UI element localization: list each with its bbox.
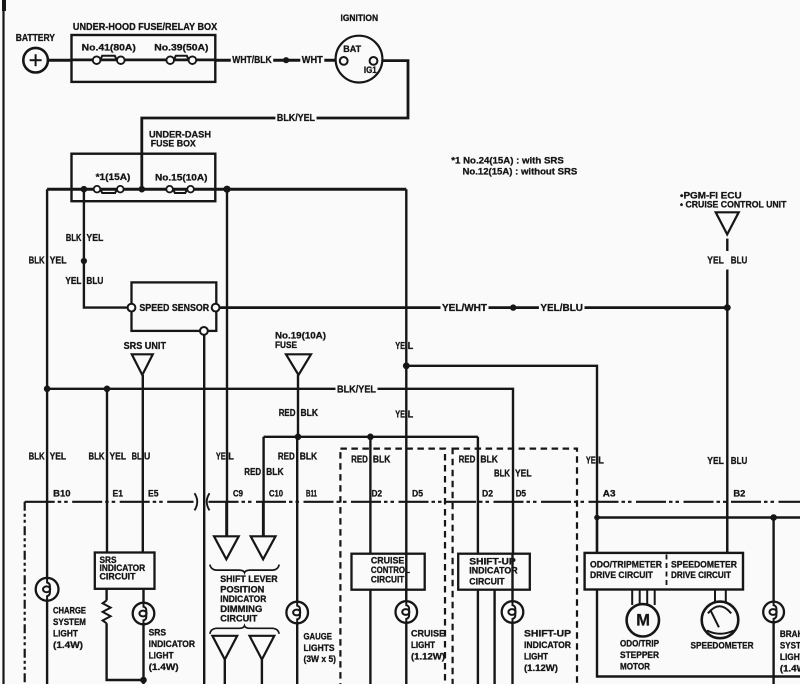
junction dot ignition feed [139, 186, 146, 193]
svg-text:(1.4W): (1.4W) [53, 640, 83, 650]
dashed box shift-up section [453, 449, 577, 684]
speed sensor terminals [128, 304, 136, 312]
svg-text:SRS: SRS [149, 627, 167, 637]
wire lower triangle leg right [261, 660, 263, 684]
wire ignition IG1 down BLK/YEL [142, 61, 408, 190]
svg-text:WHT: WHT [302, 55, 323, 66]
svg-text:U: U [144, 452, 150, 463]
svg-text:B11: B11 [306, 488, 317, 498]
svg-text:(3W x 5): (3W x 5) [304, 654, 337, 664]
svg-text:DRIVE CIRCUIT: DRIVE CIRCUIT [671, 569, 731, 580]
splice WHT/BLK to WHT [283, 57, 289, 63]
svg-text:SYSTEM: SYSTEM [53, 617, 86, 627]
svg-text:• CRUISE CONTROL UNIT: • CRUISE CONTROL UNIT [680, 199, 787, 210]
junction dot A3 cluster corner [594, 515, 600, 521]
splice BLK/YEL to YEL/BLU [81, 258, 87, 264]
svg-text:(1.4W): (1.4W) [780, 664, 800, 674]
svg-text:No.39(50A): No.39(50A) [154, 42, 208, 53]
junction dot SRS ground bus [140, 677, 147, 684]
svg-text:A3: A3 [603, 488, 616, 498]
odo/speedometer drive circuit box [585, 553, 743, 590]
wire under-hood box to ignition [215, 59, 340, 62]
svg-text:DIMMING: DIMMING [220, 604, 262, 614]
svg-text:BLK: BLK [89, 452, 106, 463]
junction dot YEL/BLU at B2 line [724, 304, 731, 311]
ignition switch [336, 36, 383, 83]
svg-text:M: M [636, 611, 650, 629]
svg-text:INDICATOR: INDICATOR [524, 640, 571, 650]
odo/trip stepper motor [631, 590, 633, 606]
svg-text:*1(15A): *1(15A) [96, 171, 131, 182]
wire YEL main vertical from fuse box [405, 189, 407, 601]
junction dot fuse row right [223, 186, 230, 193]
svg-text:SHIFT-UP: SHIFT-UP [524, 628, 571, 638]
svg-text:SPEEDOMETER: SPEEDOMETER [691, 641, 754, 651]
wire C10 vertical [262, 437, 264, 537]
svg-text:BATTERY: BATTERY [16, 33, 56, 44]
fuse No.41 80A [100, 56, 117, 60]
svg-text:RED: RED [459, 455, 476, 466]
svg-text:C10: C10 [269, 488, 283, 498]
dashed box cruise section [340, 449, 445, 684]
svg-text:DRIVE CIRCUIT: DRIVE CIRCUIT [590, 569, 653, 580]
SRS indicator light bulb [133, 603, 155, 625]
cruise light bulb [396, 601, 418, 623]
ECU cruise triangle [716, 212, 739, 234]
svg-text:YE: YE [395, 409, 405, 420]
overbrace shift lever [210, 626, 279, 634]
svg-text:GAUGE: GAUGE [304, 631, 333, 641]
shift-up indicator circuit box [458, 554, 530, 590]
svg-text:D5: D5 [412, 488, 423, 498]
svg-text:YE: YE [586, 456, 596, 467]
svg-text:No.15(10A): No.15(10A) [155, 171, 208, 182]
svg-text:YEL: YEL [50, 256, 67, 267]
junction dot YEL branch [403, 362, 410, 369]
label BLK/YEL bus [336, 384, 378, 394]
svg-text:E5: E5 [148, 488, 159, 498]
svg-text:(1.12W): (1.12W) [524, 663, 558, 673]
svg-text:WHT/BLK: WHT/BLK [232, 55, 272, 66]
svg-text:L: L [598, 456, 604, 467]
svg-text:BLK: BLK [494, 468, 511, 479]
svg-text:ODO/TRIP: ODO/TRIP [620, 639, 659, 649]
svg-text:SPEED SENSOR: SPEED SENSOR [139, 303, 209, 314]
wire E1 vertical [106, 389, 108, 553]
harness break marks [195, 493, 198, 510]
battery [23, 48, 48, 73]
svg-text:BAT: BAT [343, 44, 361, 54]
instrument cluster connector line [25, 501, 194, 503]
svg-text:STEPPER: STEPPER [620, 650, 659, 660]
wire shift-up below box mid [493, 590, 495, 684]
wire A3 into drive circuit [596, 518, 598, 553]
SRS unit triangle [132, 354, 153, 375]
wire speed sensor bottom YEL down [203, 331, 205, 684]
fuse *1 15A [100, 189, 117, 193]
charge system light bulb [36, 578, 59, 601]
svg-text:LIGHT: LIGHT [411, 640, 435, 650]
SRS resistor [103, 601, 111, 624]
svg-text:RED: RED [244, 467, 261, 478]
svg-text:BLK: BLK [301, 408, 319, 419]
label YEL/BLU splice [539, 302, 585, 312]
svg-text:BLU: BLU [731, 456, 748, 467]
svg-text:CRUISE: CRUISE [371, 556, 405, 566]
junction dot BLK/YEL bus B10 [44, 386, 51, 393]
wire battery to under-hood box [48, 59, 72, 62]
wire brake light branch [772, 518, 774, 684]
drive circuit box divider [666, 555, 668, 589]
wire BLK/YEL B10 branch vertical [46, 189, 48, 684]
svg-text:C9: C9 [233, 488, 243, 498]
wire through under-hood fuses [72, 59, 216, 62]
wire SRS unit BLU to E5 [142, 375, 144, 553]
junction dot fuse row left [81, 186, 88, 193]
svg-text:INDICATOR: INDICATOR [149, 639, 196, 649]
label WHT [300, 55, 324, 65]
svg-text:*1 No.24(15A) : with SRS: *1 No.24(15A) : with SRS [451, 156, 564, 166]
fuse No.39 50A [174, 56, 189, 60]
svg-text:FUSE BOX: FUSE BOX [151, 139, 197, 150]
svg-text:BRAKE: BRAKE [780, 629, 800, 639]
svg-text:BLK: BLK [480, 455, 498, 466]
svg-text:L: L [408, 409, 414, 420]
svg-text:BLU: BLU [86, 276, 103, 287]
wire BLK/YEL bus horizontal [47, 389, 513, 554]
svg-text:RED: RED [278, 452, 295, 463]
connector line left drop dash-dot [24, 502, 26, 684]
junction dot RED/BLK bus [295, 434, 302, 441]
svg-text:CIRCUIT: CIRCUIT [469, 577, 505, 587]
wire BLK/YEL to speed sensor vertical [84, 189, 128, 307]
wire C9 vertical [226, 189, 228, 536]
svg-text:D5: D5 [516, 488, 526, 498]
under-hood fuse/relay box [72, 35, 216, 82]
svg-text:ODO/TRIPMETER: ODO/TRIPMETER [590, 559, 662, 570]
cruise control circuit box [352, 554, 425, 590]
label BLK/YEL ignition wire [275, 112, 316, 122]
svg-text:BLK/YEL: BLK/YEL [277, 113, 315, 124]
wire shift lever triangle stub C10 [262, 502, 264, 537]
junction dot brake light branch [770, 514, 777, 521]
page left border [2, 0, 4, 684]
wire shift-up below box left [477, 590, 479, 684]
svg-text:YEL: YEL [65, 276, 81, 287]
wire YEL/BLU B2 vertical [726, 308, 728, 553]
svg-text:INDICATOR: INDICATOR [220, 594, 266, 604]
svg-text:BLK: BLK [373, 455, 391, 466]
lower triangle right [250, 636, 275, 660]
gauge assembly outline [597, 518, 800, 553]
svg-text:CRUISE: CRUISE [411, 628, 445, 638]
wire B2 drive circuit feed [726, 502, 728, 553]
svg-text:CIRCUIT: CIRCUIT [371, 575, 405, 585]
under-dash fuse box [72, 154, 216, 202]
svg-text:YEL: YEL [707, 256, 724, 267]
shift-up indicator light bulb [502, 601, 524, 623]
wire shift lever triangle stub C9 [225, 502, 227, 537]
shift lever triangle C10 [251, 536, 276, 559]
wire RED/BLK bus horizontal [264, 436, 478, 438]
svg-text:LIGHT: LIGHT [149, 650, 174, 660]
label YEL/WHT [441, 302, 489, 312]
svg-text:BLK/YEL: BLK/YEL [337, 384, 376, 395]
wire cruise D2 below box [369, 590, 371, 684]
svg-text:CONTROL: CONTROL [371, 565, 411, 575]
svg-text:YEL: YEL [707, 456, 724, 467]
wire shift-up light leg [511, 554, 513, 684]
svg-text:L: L [228, 452, 234, 463]
svg-text:CIRCUIT: CIRCUIT [100, 571, 137, 581]
svg-text:BLK: BLK [29, 256, 46, 267]
junction dot BLK/YEL bus E1 [104, 386, 111, 393]
svg-text:YEL/WHT: YEL/WHT [442, 303, 487, 314]
wire No.19 fuse RED/BLK down [297, 375, 299, 437]
wire YEL branch to A3 [406, 366, 597, 518]
wire SRS resistor leg [105, 589, 107, 601]
underbrace shift lever [210, 565, 279, 573]
svg-text:CIRCUIT: CIRCUIT [220, 614, 257, 624]
wire SRS lamp leg [142, 589, 144, 680]
shift lever triangle C9 [214, 536, 239, 559]
svg-text:YEL: YEL [110, 452, 127, 463]
svg-text:BLK: BLK [300, 452, 318, 463]
svg-text:MOTOR: MOTOR [620, 662, 650, 672]
svg-text:No.41(80A): No.41(80A) [82, 42, 136, 53]
svg-text:L: L [408, 341, 414, 352]
No.19 fuse triangle [286, 354, 311, 375]
fuse No.15 10A [173, 189, 187, 193]
svg-text:INDICATOR: INDICATOR [469, 566, 518, 576]
svg-text:IGNITION: IGNITION [341, 13, 379, 23]
svg-text:B10: B10 [53, 488, 70, 498]
svg-text:BLK: BLK [266, 467, 284, 478]
wire cruise light leg [405, 590, 407, 684]
svg-text:FUSE: FUSE [275, 339, 297, 350]
svg-text:LIGHT: LIGHT [780, 652, 800, 662]
svg-text:LIGHT: LIGHT [53, 628, 78, 638]
svg-text:LIGHT: LIGHT [524, 651, 548, 661]
svg-text:D2: D2 [372, 488, 382, 498]
SRS indicator circuit box [95, 553, 155, 589]
svg-text:BLK: BLK [29, 452, 46, 463]
wire speed sensor output YEL horizontal [220, 306, 728, 309]
svg-text:LIGHTS: LIGHTS [304, 643, 335, 653]
svg-text:YE: YE [216, 452, 226, 463]
gauge lights bulb [286, 602, 308, 624]
svg-text:CHARGE: CHARGE [53, 605, 86, 615]
svg-text:BLU: BLU [731, 256, 748, 267]
wire lower triangle leg left [224, 660, 226, 684]
svg-text:E1: E1 [113, 488, 124, 498]
svg-text:YEL/BLU: YEL/BLU [540, 303, 583, 314]
svg-text:UNDER-HOOD FUSE/RELAY BOX: UNDER-HOOD FUSE/RELAY BOX [73, 22, 218, 33]
svg-text:RED: RED [279, 408, 296, 419]
svg-text:SRS UNIT: SRS UNIT [124, 341, 166, 352]
svg-text:SHIFT LEVER: SHIFT LEVER [220, 574, 278, 584]
wire RED/BLK B11 gauge lights [296, 437, 298, 684]
wire ECU YEL/BLU vertical [726, 239, 728, 251]
svg-text:BLK: BLK [66, 233, 82, 244]
wire D2 shift-up vertical [477, 437, 479, 554]
svg-text:(1.4W): (1.4W) [149, 662, 179, 672]
svg-text:IG1: IG1 [364, 65, 377, 75]
svg-text:RED: RED [351, 455, 368, 466]
svg-text:BL: BL [132, 452, 142, 463]
wire D2 cruise vertical [369, 437, 371, 554]
svg-text:SPEEDOMETER: SPEEDOMETER [671, 559, 737, 570]
speedometer gauge [714, 590, 716, 603]
speed sensor box [132, 282, 217, 331]
lower triangle left [212, 636, 237, 660]
svg-text:D2: D2 [482, 488, 493, 498]
svg-text:No.12(15A) : without SRS: No.12(15A) : without SRS [463, 167, 578, 177]
splice YEL/WHT to YEL/BLU [510, 304, 516, 310]
svg-text:SYSTEM: SYSTEM [780, 641, 800, 651]
brake system light bulb [763, 602, 784, 623]
svg-text:YE: YE [395, 341, 405, 352]
label WHT/BLK [231, 55, 273, 65]
svg-text:YEL: YEL [515, 468, 532, 479]
svg-text:(1.12W): (1.12W) [411, 651, 445, 661]
wire under-dash fuse row [47, 188, 406, 191]
svg-text:B2: B2 [733, 488, 745, 498]
svg-text:YEL: YEL [86, 233, 103, 244]
junction dot RED/BLK D2 [367, 434, 374, 441]
svg-text:YEL: YEL [50, 452, 67, 463]
